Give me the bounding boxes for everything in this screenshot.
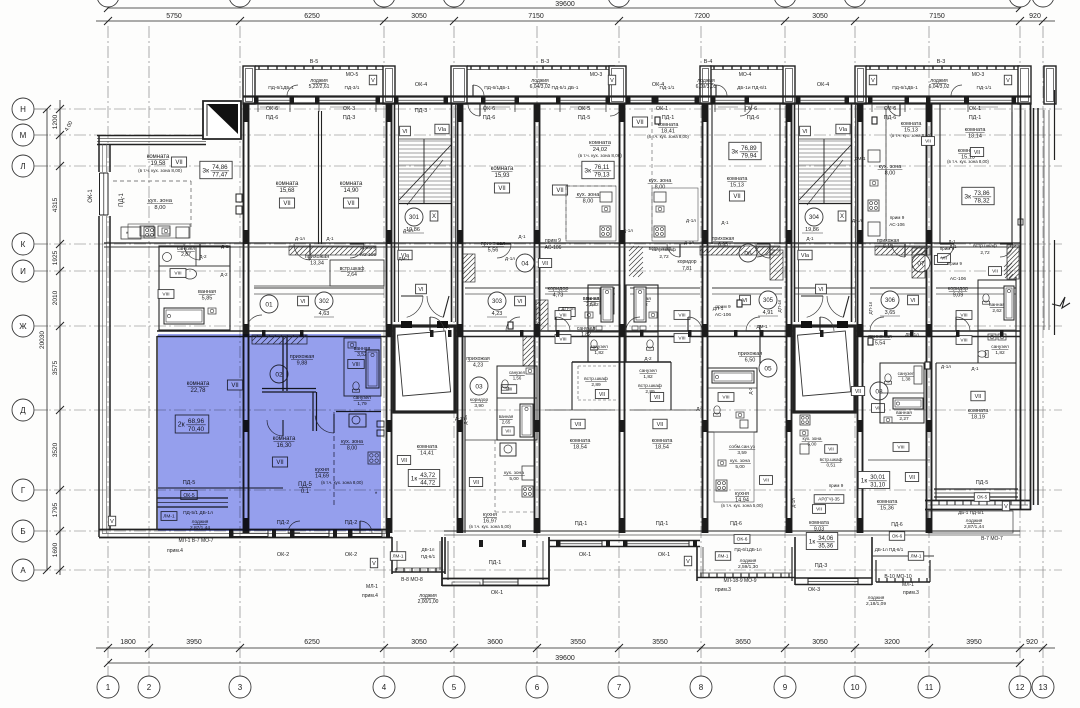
svg-text:2,64: 2,64	[347, 272, 357, 278]
svg-text:24,02: 24,02	[593, 147, 608, 153]
unit circle 302	[298, 292, 334, 317]
svg-text:3050: 3050	[411, 639, 427, 646]
bottom base wall right half	[444, 531, 1020, 535]
svg-text:комната: комната	[417, 444, 439, 450]
highlighted apartment overlay	[158, 334, 381, 531]
svg-text:4315: 4315	[52, 197, 59, 212]
room label kuhnia 14,94	[721, 476, 772, 508]
svg-text:комната: комната	[809, 520, 829, 526]
svg-text:77,47: 77,47	[212, 172, 228, 179]
svg-text:ДП-1л: ДП-1л	[868, 301, 873, 314]
svg-text:VIII: VIII	[678, 336, 685, 342]
kitchen sec7 appliances	[652, 188, 698, 241]
svg-text:ДБ-1л ПД-6/1: ДБ-1л ПД-6/1	[875, 547, 904, 552]
svg-text:3050: 3050	[411, 13, 427, 20]
svg-text:V: V	[686, 559, 690, 565]
svg-text:1,56: 1,56	[513, 375, 522, 380]
room label komnata 14,41	[417, 444, 439, 457]
svg-text:2,65: 2,65	[502, 419, 511, 424]
svg-text:встр.шкаф: встр.шкаф	[652, 247, 676, 253]
dark corner wedge	[203, 101, 241, 139]
svg-text:6,04/3,02: 6,04/3,02	[929, 84, 950, 90]
sanuzel 08	[872, 371, 915, 451]
left loggia band	[108, 336, 228, 530]
svg-text:V: V	[871, 78, 875, 84]
svg-text:VII: VII	[975, 394, 982, 400]
svg-text:прим 9: прим 9	[545, 238, 561, 244]
bathroom cluster right walls	[978, 263, 1016, 363]
svg-text:комната: комната	[965, 127, 987, 133]
unit circle 08	[851, 382, 888, 400]
vertical axis grid lines	[108, 26, 1043, 676]
svg-text:прим 9: прим 9	[890, 215, 905, 220]
svg-text:6250: 6250	[304, 13, 320, 20]
svg-text:5,85: 5,85	[202, 296, 213, 302]
elevator A	[394, 321, 455, 412]
top dimension chain	[96, 13, 1055, 25]
svg-text:3,59: 3,59	[737, 450, 747, 456]
svg-text:VII: VII	[925, 139, 931, 145]
room label komnata 24,02	[578, 140, 622, 158]
svg-text:39600: 39600	[555, 655, 575, 662]
door arcs	[184, 104, 1013, 533]
svg-text:3050: 3050	[812, 639, 828, 646]
svg-text:VIII: VIII	[960, 338, 967, 344]
bathroom cluster 08 walls	[880, 363, 924, 423]
svg-text:МО-3: МО-3	[590, 72, 603, 78]
svg-text:ванная: ванная	[499, 414, 514, 419]
svg-text:В-5: В-5	[310, 59, 319, 65]
balcony door arcs	[287, 85, 962, 96]
left overall dimension 20030	[39, 105, 51, 574]
svg-text:Д-2: Д-2	[748, 387, 753, 394]
svg-text:В-7 МО-7: В-7 МО-7	[981, 536, 1003, 542]
top axis circles	[97, 0, 1054, 7]
svg-text:Д-2: Д-2	[644, 356, 652, 361]
svg-text:2,89: 2,89	[591, 382, 601, 388]
svg-text:(в т.ч. кух. зона 8,00): (в т.ч. кух. зона 8,00)	[578, 153, 622, 158]
svg-text:06: 06	[744, 250, 752, 257]
svg-text:9: 9	[783, 683, 788, 692]
svg-text:Д-1: Д-1	[696, 406, 704, 411]
svg-text:1к: 1к	[411, 475, 418, 482]
window jamb blocks bottom wall	[229, 529, 697, 547]
stair label 301	[398, 124, 449, 294]
svg-text:ПД-6: ПД-6	[483, 115, 496, 121]
room label komnata 19,58	[138, 154, 182, 173]
svg-text:2,62: 2,62	[992, 308, 1002, 314]
bottom windows OK-2	[233, 530, 382, 537]
bath right pair	[938, 243, 1009, 369]
svg-text:V: V	[372, 561, 376, 567]
svg-text:1,82: 1,82	[643, 374, 653, 380]
svg-text:(в т.ч. кух. зона 8,00): (в т.ч. кух. зона 8,00)	[138, 168, 182, 173]
svg-text:2,62: 2,62	[589, 302, 599, 308]
svg-text:VII: VII	[498, 186, 506, 192]
top balcony parapet line	[255, 66, 1020, 70]
type box 3k 76,11	[552, 161, 614, 195]
svg-text:1800: 1800	[120, 639, 136, 646]
svg-text:АС-106: АС-106	[545, 245, 562, 251]
svg-text:VI: VI	[802, 129, 808, 135]
svg-text:10: 10	[851, 683, 860, 692]
svg-text:комната: комната	[877, 499, 899, 505]
svg-text:VIа: VIа	[438, 127, 447, 133]
svg-text:2,87: 2,87	[181, 252, 191, 258]
svg-text:2: 2	[147, 683, 152, 692]
svg-text:7: 7	[617, 683, 622, 692]
svg-text:VII: VII	[473, 480, 479, 486]
svg-text:301: 301	[409, 215, 420, 221]
svg-text:ПД-1: ПД-1	[575, 521, 588, 527]
svg-text:18,54: 18,54	[573, 445, 587, 451]
svg-text:34,06: 34,06	[818, 536, 834, 542]
svg-text:ПД-3: ПД-3	[415, 108, 428, 114]
right exterior wall	[1021, 90, 1055, 510]
door labels	[199, 156, 979, 421]
entry hatch strips	[289, 246, 930, 331]
svg-text:ОК-1: ОК-1	[579, 552, 591, 558]
kitchen blue appliances	[336, 412, 384, 499]
stair door arcs A	[401, 296, 449, 317]
svg-text:Д-1л: Д-1л	[403, 228, 413, 233]
stair door arcs B	[801, 296, 849, 317]
hatch wall apt03	[523, 336, 535, 366]
svg-text:15,93: 15,93	[494, 173, 510, 179]
svg-text:АС-106: АС-106	[950, 276, 966, 282]
unit circle 06	[739, 244, 757, 262]
svg-text:ПД-3: ПД-3	[815, 563, 828, 569]
svg-text:VI: VI	[517, 299, 523, 305]
svg-text:(в т.ч. кух. зона 5,00): (в т.ч. кух. зона 5,00)	[721, 503, 763, 508]
svg-text:7150: 7150	[528, 13, 544, 20]
svg-text:V: V	[610, 78, 614, 84]
svg-text:VI: VI	[418, 287, 424, 293]
svg-text:13: 13	[1039, 683, 1048, 692]
svg-text:Д-1л: Д-1л	[852, 218, 862, 223]
svg-text:6,50: 6,50	[745, 358, 756, 364]
svg-text:03: 03	[475, 383, 483, 390]
bottom step balcony LM-1	[392, 537, 445, 574]
window stubs top	[258, 104, 1012, 112]
room label komnata 16,30	[272, 436, 296, 467]
svg-text:Н: Н	[20, 105, 26, 114]
svg-text:1,82: 1,82	[581, 332, 591, 338]
svg-text:МО-4: МО-4	[739, 72, 752, 78]
bottom wall right section	[925, 489, 1031, 533]
svg-text:кух. зона: кух. зона	[649, 178, 673, 184]
bathroom cluster sec6 walls	[572, 285, 671, 362]
bottom overall dimension 39600	[104, 655, 1024, 667]
svg-text:прихожая: прихожая	[466, 356, 490, 362]
svg-text:(в т.ч. кух. зона 8,00): (в т.ч. кух. зона 8,00)	[647, 134, 689, 139]
svg-text:встр.шкаф: встр.шкаф	[973, 243, 997, 249]
svg-text:ОК-3: ОК-3	[808, 587, 820, 593]
svg-text:1200: 1200	[52, 114, 59, 129]
svg-text:39600: 39600	[555, 1, 575, 8]
top overall dimension 39600	[104, 1, 1024, 12]
svg-text:VIII: VIII	[897, 445, 904, 451]
svg-text:3200: 3200	[884, 639, 900, 646]
svg-text:коридор: коридор	[548, 286, 569, 292]
svg-text:ОК-1: ОК-1	[88, 189, 94, 203]
svg-text:VII: VII	[974, 150, 980, 156]
svg-text:8: 8	[699, 683, 704, 692]
svg-text:74,86: 74,86	[212, 164, 228, 171]
svg-text:3,65: 3,65	[885, 310, 896, 316]
hall label 6,50	[738, 351, 763, 364]
kitchen zone right	[648, 178, 673, 191]
svg-text:встр.шкаф: встр.шкаф	[820, 457, 843, 462]
door jamb blocks mid wall	[262, 330, 1004, 337]
svg-text:43,72: 43,72	[420, 473, 436, 479]
svg-text:VI: VI	[300, 299, 306, 305]
room label komnata 18,14	[965, 127, 987, 157]
svg-text:3к: 3к	[731, 148, 738, 155]
stair flight B	[799, 139, 851, 205]
stair core B walls	[795, 104, 856, 322]
elevator B	[794, 321, 855, 412]
left axis circles	[12, 98, 48, 581]
svg-text:прим.4: прим.4	[362, 593, 378, 599]
svg-text:VII: VII	[347, 201, 355, 207]
kitchen zone left	[128, 198, 190, 238]
unit circle 03	[470, 377, 488, 395]
svg-text:VII: VII	[575, 422, 582, 428]
mid corridor walls	[254, 288, 1016, 294]
svg-text:3600: 3600	[487, 639, 503, 646]
svg-text:VIII: VIII	[722, 395, 729, 401]
svg-text:1к: 1к	[861, 477, 868, 484]
balcony labels top	[268, 59, 1012, 91]
svg-text:коридор: коридор	[677, 259, 696, 265]
svg-text:кух. зона: кух. зона	[803, 436, 822, 441]
room label komnata 22,78	[187, 380, 243, 394]
hall labels upper right	[649, 218, 956, 251]
type box 2k 68,96	[175, 415, 209, 433]
svg-text:4,73: 4,73	[553, 293, 564, 299]
room label komnata 18,54 b	[652, 419, 674, 450]
svg-text:Б: Б	[20, 527, 25, 536]
prim9 label a	[545, 238, 562, 251]
mid band vent squares	[508, 117, 930, 369]
svg-text:АС-106: АС-106	[889, 222, 905, 227]
svg-text:3050: 3050	[812, 13, 828, 20]
secondary partitions upper band	[319, 104, 1013, 244]
svg-text:ДП-1: ДП-1	[713, 306, 724, 311]
type box 3k 73,86	[962, 187, 994, 204]
svg-text:ПД-1: ПД-1	[662, 115, 675, 121]
labels bottom right	[715, 480, 1010, 607]
svg-text:5: 5	[452, 683, 457, 692]
svg-text:05: 05	[764, 365, 772, 372]
corridor 4,73	[548, 286, 569, 299]
room label komnata 15,13 b	[947, 148, 989, 164]
svg-text:304: 304	[809, 215, 820, 221]
svg-text:кухня: кухня	[483, 512, 497, 518]
svg-text:М: М	[20, 131, 27, 140]
closet walls sec34	[254, 260, 384, 286]
horizontal axis grid lines	[34, 109, 1062, 570]
hall label 9,88	[290, 354, 315, 367]
svg-text:встр.шкаф: встр.шкаф	[638, 383, 662, 389]
labels below blue	[167, 538, 214, 554]
svg-text:ДМ-1: ДМ-1	[756, 324, 767, 329]
svg-text:ОК-4: ОК-4	[415, 82, 427, 88]
svg-text:2,72: 2,72	[659, 254, 669, 260]
svg-text:2010: 2010	[52, 290, 59, 305]
svg-text:комната: комната	[727, 176, 749, 182]
svg-text:08: 08	[875, 388, 883, 395]
svg-text:35,36: 35,36	[818, 544, 834, 550]
room label komnata 15,36	[877, 499, 899, 512]
svg-text:8,00: 8,00	[583, 199, 594, 205]
svg-text:VII: VII	[909, 475, 915, 481]
svg-text:Ж: Ж	[19, 322, 27, 331]
svg-text:14,41: 14,41	[420, 451, 434, 457]
svg-text:4,63: 4,63	[319, 311, 330, 317]
svg-text:4,91: 4,91	[763, 310, 774, 316]
svg-text:6,09/3,05: 6,09/3,05	[696, 84, 717, 90]
hall label 4,23b	[466, 356, 490, 368]
room label komnata 15,93	[491, 166, 514, 193]
svg-text:ПД-3/1: ПД-3/1	[345, 85, 360, 91]
svg-text:ПД-5: ПД-5	[578, 115, 591, 121]
bath cluster sec89	[708, 299, 873, 432]
stair core A walls	[395, 104, 456, 322]
svg-text:VIII: VIII	[559, 337, 566, 343]
svg-text:3550: 3550	[652, 639, 668, 646]
svg-text:1690: 1690	[52, 542, 59, 557]
svg-text:В-3: В-3	[937, 59, 946, 65]
svg-text:V: V	[371, 78, 375, 84]
svg-text:VII: VII	[556, 188, 564, 194]
svg-text:3650: 3650	[735, 639, 751, 646]
bath blue 3,52	[344, 338, 381, 407]
svg-text:комната: комната	[901, 121, 923, 127]
AR box	[791, 415, 844, 513]
svg-text:(в т.ч. кух. зона 8,00): (в т.ч. кух. зона 8,00)	[947, 159, 989, 164]
svg-text:14,90: 14,90	[343, 188, 359, 194]
svg-text:3550: 3550	[570, 639, 586, 646]
left exterior wall	[99, 135, 110, 537]
svg-text:комната: комната	[570, 438, 592, 444]
svg-text:3520: 3520	[52, 442, 59, 457]
svg-text:VII: VII	[828, 447, 834, 452]
lower band inner walls horizontal	[158, 363, 1016, 488]
svg-text:01: 01	[265, 301, 273, 308]
bathroom cluster apt03	[463, 366, 537, 440]
svg-text:К: К	[21, 240, 26, 249]
svg-text:санузел: санузел	[898, 371, 915, 376]
svg-text:ДМ-1: ДМ-1	[398, 256, 409, 261]
svg-text:04: 04	[521, 260, 529, 267]
svg-text:8,00: 8,00	[154, 205, 165, 211]
svg-text:9,09: 9,09	[953, 292, 963, 298]
svg-text:3: 3	[238, 683, 243, 692]
svg-text:ОК-1: ОК-1	[658, 552, 670, 558]
svg-text:19,58: 19,58	[150, 161, 166, 167]
svg-text:2,72: 2,72	[980, 250, 990, 256]
svg-text:Л: Л	[20, 162, 25, 171]
bath pair mid	[559, 288, 614, 338]
svg-text:прихожая: прихожая	[738, 351, 763, 357]
svg-text:Д-1: Д-1	[326, 236, 334, 241]
svg-text:VIII: VIII	[162, 292, 169, 298]
svg-text:3950: 3950	[966, 639, 982, 646]
room label komnata 9,03	[809, 520, 829, 532]
svg-text:В-10 МО-10: В-10 МО-10	[884, 574, 911, 580]
hall label 13,34	[305, 254, 330, 267]
svg-text:VII: VII	[505, 429, 510, 434]
svg-text:1,38: 1,38	[902, 377, 911, 382]
svg-text:прим.4: прим.4	[167, 548, 183, 554]
svg-text:Д-1л: Д-1л	[505, 256, 515, 261]
svg-text:Д-1л: Д-1л	[686, 218, 696, 223]
svg-text:ПД-1: ПД-1	[656, 521, 669, 527]
svg-text:15,13: 15,13	[730, 183, 744, 189]
svg-text:ДБ-1 ПД-5/1: ДБ-1 ПД-5/1	[958, 510, 984, 515]
unit circle 01	[260, 295, 278, 313]
svg-text:ОК-6: ОК-6	[737, 537, 748, 543]
svg-text:Д: Д	[20, 406, 26, 415]
svg-text:В-8 МО-8: В-8 МО-8	[401, 577, 423, 583]
svg-text:прим 9: прим 9	[948, 261, 963, 266]
svg-text:1795: 1795	[52, 502, 59, 517]
svg-text:18,54: 18,54	[655, 445, 669, 451]
svg-text:6,04/3,02: 6,04/3,02	[530, 84, 551, 90]
labels PD-5 OK-5	[181, 480, 197, 500]
svg-text:Г: Г	[21, 486, 26, 495]
svg-text:ДБ-1и ПД-6/1: ДБ-1и ПД-6/1	[737, 85, 767, 91]
kitchen apt03 appliances	[469, 440, 534, 512]
svg-text:комната: комната	[652, 438, 674, 444]
svg-text:VIII: VIII	[678, 313, 685, 319]
left block top wall	[97, 101, 206, 145]
svg-text:ДБ-1л: ДБ-1л	[422, 547, 435, 552]
svg-text:6,95: 6,95	[718, 242, 728, 248]
svg-text:303: 303	[492, 299, 503, 305]
svg-text:санузел: санузел	[509, 370, 526, 375]
svg-text:302: 302	[319, 299, 330, 305]
svg-text:5,56: 5,56	[488, 248, 499, 254]
hall label 5,56	[481, 241, 506, 254]
svg-text:Д-1л: Д-1л	[221, 244, 231, 249]
svg-text:18,19: 18,19	[971, 415, 985, 421]
svg-text:920: 920	[1029, 13, 1041, 20]
svg-text:V: V	[1004, 504, 1008, 510]
svg-text:Д-1: Д-1	[806, 236, 814, 241]
svg-text:прим 9: прим 9	[829, 483, 844, 488]
svg-text:5,00: 5,00	[735, 464, 745, 470]
svg-text:76,89: 76,89	[741, 145, 757, 152]
svg-text:3575: 3575	[52, 360, 59, 375]
svg-text:ПД-3: ПД-3	[343, 115, 356, 121]
svg-text:VII: VII	[401, 458, 407, 464]
kitchen label 16,97	[469, 512, 511, 529]
svg-text:ДП-4л: ДП-4л	[777, 299, 782, 312]
bath mid pair b	[635, 240, 697, 402]
svg-text:2,59/1,30: 2,59/1,30	[738, 564, 758, 570]
svg-text:VII: VII	[816, 507, 822, 513]
svg-text:Д-1л: Д-1л	[295, 236, 305, 241]
wall poche blocks	[243, 104, 932, 533]
svg-text:ПД-6: ПД-6	[884, 115, 897, 121]
kitchen sec10 appliances	[868, 108, 886, 241]
type box 3k 74,86	[171, 157, 232, 179]
hatch strip blue hall	[252, 335, 307, 344]
svg-text:ОК-6: ОК-6	[892, 534, 903, 539]
